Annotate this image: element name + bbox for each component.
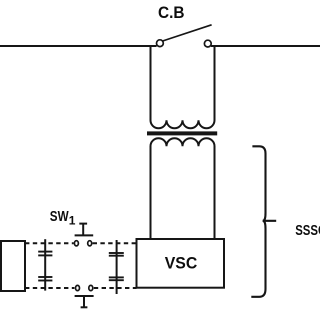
wire: transformer primary left lead <box>150 45 152 60</box>
wire: top bus left segment <box>0 45 157 47</box>
label SW1 <box>50 209 76 228</box>
switch SW2 actuator tick <box>81 296 88 307</box>
transformer T secondary winding <box>151 138 215 170</box>
wire: top bus right segment <box>211 45 320 47</box>
VSC converter box <box>137 239 225 288</box>
svg-text:SSSC: SSSC <box>295 222 320 239</box>
switch SW1 actuator tick <box>79 224 87 236</box>
brace SSSC <box>251 146 276 296</box>
wire: transformer primary right lead <box>214 45 216 60</box>
wire: left capacitor branch <box>44 239 46 290</box>
label SSSC <box>295 222 320 239</box>
switch SW1 terminal right <box>88 241 92 246</box>
switch SW2 terminal right <box>89 285 93 290</box>
capacitor C1 top-left plates <box>38 252 52 256</box>
left source box <box>1 241 25 291</box>
circuit breaker C.B terminal right <box>204 40 211 47</box>
capacitor C3 top-right plates <box>109 253 124 256</box>
transformer T core bar <box>147 131 217 135</box>
capacitor C4 bottom-right plates <box>109 277 124 280</box>
wire: bottom dashed DC link, left part <box>25 287 74 289</box>
svg-text:SW: SW <box>50 209 69 225</box>
switch SW2 terminal left <box>76 285 80 290</box>
wire: bottom dashed DC link, right part <box>94 287 137 289</box>
wire: top dashed DC link, left part <box>25 242 74 244</box>
svg-text:C.B: C.B <box>158 3 185 22</box>
capacitor C2 bottom-left plates <box>38 277 52 281</box>
transformer T primary winding <box>151 58 215 128</box>
svg-text:1: 1 <box>69 214 76 228</box>
switch SW1 terminal left <box>74 241 78 246</box>
svg-text:VSC: VSC <box>165 254 198 273</box>
label C.B <box>158 3 185 22</box>
switch SW2 blade bar <box>75 295 94 297</box>
circuit breaker C.B blade (open) <box>163 25 212 41</box>
wire: right capacitor branch <box>116 240 118 294</box>
wire: secondary right lead into VSC <box>214 168 216 247</box>
label VSC <box>165 254 198 273</box>
wire: top dashed DC link, right part <box>93 242 137 244</box>
circuit breaker C.B terminal left <box>157 40 164 47</box>
wire: secondary left lead into VSC <box>150 168 152 247</box>
switch SW1 blade bar <box>75 234 94 236</box>
